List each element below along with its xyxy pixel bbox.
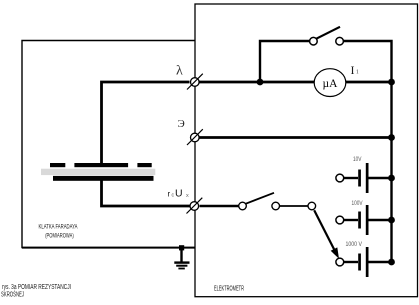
faraday cage bottom line (thicker, also ground wire) <box>22 247 195 249</box>
electrometer enclosure box <box>195 4 418 297</box>
terminal rcUx <box>187 198 203 214</box>
svg-text:1000 V: 1000 V <box>346 242 363 248</box>
wire: E line node to right bus <box>200 136 392 139</box>
svg-text:Э: Э <box>178 118 185 130</box>
svg-text:1: 1 <box>356 69 359 76</box>
switch S1 contact left <box>310 37 318 45</box>
wire: lambda line inside box (to meter) <box>200 81 315 84</box>
svg-text:SKROŚNEJ: SKROŚNEJ <box>1 290 24 299</box>
svg-text:x: x <box>186 193 189 199</box>
selector arrow to 1000V <box>314 210 339 259</box>
battery B3 terminal circle <box>336 258 344 266</box>
junction dot at lambda/branch <box>257 79 264 86</box>
wire: top electrode to terminal lambda <box>102 82 190 164</box>
terminal E <box>187 129 203 145</box>
junction dot bus/lambda <box>388 79 395 86</box>
svg-text:ELEKTROMETR: ELEKTROMETR <box>214 286 244 293</box>
guard electrode right dash <box>137 163 151 167</box>
battery B2 long plate <box>366 205 369 235</box>
battery B3 short plate <box>358 254 361 271</box>
battery B1 wires <box>344 177 358 179</box>
svg-text:λ: λ <box>176 64 183 79</box>
battery B2 wires <box>344 219 358 221</box>
selector contact 2 <box>272 202 280 210</box>
wire: shorting switch branch (up and over) <box>260 41 310 82</box>
svg-text:rys. 3a POMIAR REZYSTANCJI: rys. 3a POMIAR REZYSTANCJI <box>2 284 71 291</box>
guard electrode left dash <box>50 163 65 167</box>
selector lever (open) <box>246 193 275 204</box>
label rcUx <box>168 188 190 200</box>
junction dot bus/E line <box>388 134 395 141</box>
battery B2 terminal circle <box>336 216 344 224</box>
selector contact 3 <box>308 202 316 210</box>
svg-text:I: I <box>351 63 355 77</box>
battery B1 long plate <box>366 163 369 193</box>
sample slab (gray) <box>41 169 155 175</box>
battery B3 wires <box>344 261 358 263</box>
battery B3 long plate <box>366 247 369 277</box>
junction dot bus/battery1 <box>388 175 395 182</box>
bottom electrode plate <box>53 176 154 181</box>
wire: meter to right bus <box>346 81 392 84</box>
wire: switch to bus corner <box>344 41 392 262</box>
junction dot bus/battery3 <box>388 259 395 266</box>
wire: rcUx node to selector switch <box>200 205 239 208</box>
measuring electrode (middle dash) <box>74 163 128 167</box>
svg-text:KLATKA FARADAYA: KLATKA FARADAYA <box>39 223 78 230</box>
battery B1 short plate <box>358 170 361 187</box>
microammeter uA <box>314 69 346 97</box>
ground symbol bars <box>174 261 189 263</box>
battery B2 short plate <box>358 212 361 229</box>
svg-text:µA: µA <box>323 78 339 90</box>
svg-text:U: U <box>175 188 183 200</box>
battery B1 terminal circle <box>336 174 344 182</box>
ground stem <box>180 248 182 262</box>
junction dot bus/battery2 <box>388 217 395 224</box>
svg-text:100V: 100V <box>352 201 363 207</box>
wire: bottom electrode down and right to terminal rcUx <box>102 180 190 206</box>
ground junction square <box>179 245 184 250</box>
terminal lambda <box>187 74 203 90</box>
switch S1 lever <box>316 27 340 39</box>
switch S1 contact right <box>336 37 344 45</box>
svg-text:(POMIAROWA): (POMIAROWA) <box>45 233 74 240</box>
svg-text:10V: 10V <box>353 157 362 163</box>
selector switch pole contact <box>239 202 247 210</box>
svg-text:r: r <box>168 190 171 199</box>
wire between selector contacts <box>280 205 309 207</box>
faraday cage outline (top, left, bottom) <box>22 41 195 248</box>
